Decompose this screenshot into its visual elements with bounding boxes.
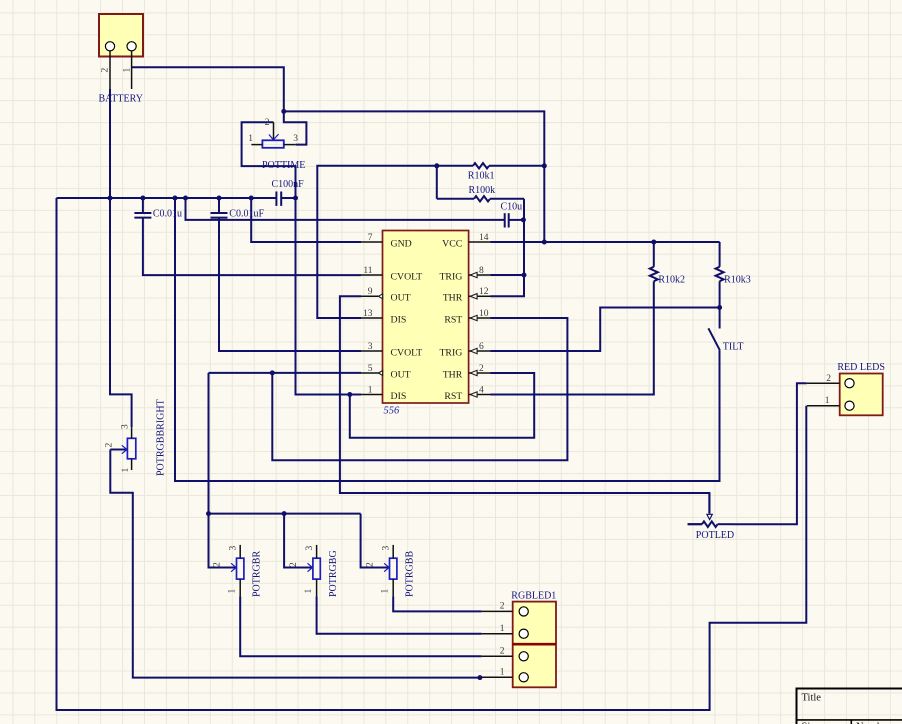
wire R10k1 row to DIS pin13 xyxy=(317,166,437,318)
svg-text:2: 2 xyxy=(500,602,505,612)
svg-text:3: 3 xyxy=(229,546,239,551)
wire POTTIME wiper loop xyxy=(242,122,296,198)
svg-text:OUT: OUT xyxy=(391,293,411,304)
capacitor C100nF xyxy=(276,192,281,206)
node bus junction rail175 xyxy=(173,196,178,201)
svg-text:C10u: C10u xyxy=(501,202,523,213)
pin name OUT left row 6 xyxy=(391,369,411,380)
pin number 2 xyxy=(479,364,484,374)
pin name TRIG right row 5 xyxy=(439,347,462,358)
pin 5 OUT of 556 xyxy=(361,371,383,376)
label POTRGBG xyxy=(328,550,339,597)
wire OUT pin9 to POTLED top xyxy=(340,296,710,513)
wire OUT2 net down to pots rail xyxy=(208,373,210,514)
capacitor C10u xyxy=(505,213,509,227)
svg-text:TRIG: TRIG xyxy=(439,271,462,282)
pin number 1 of RED LEDS xyxy=(825,396,830,406)
label POTRGBR xyxy=(252,551,263,597)
label POTRGBB xyxy=(405,551,416,597)
pin 1 DIS of 556 xyxy=(361,394,383,396)
wire rail to POTRGBB wiper xyxy=(361,514,390,568)
svg-text:11: 11 xyxy=(363,266,372,276)
wire POTTIME node to pin3 loop xyxy=(284,111,307,144)
node DIS2 junction xyxy=(347,392,352,397)
pin number 4 xyxy=(479,385,484,395)
wire C10u right to R100k/TRIG node xyxy=(509,219,524,221)
svg-text:8: 8 xyxy=(479,266,484,276)
pin 10 RST of 556 xyxy=(469,315,491,320)
wire POTRGBR pin1 to RGBLED1 xyxy=(240,596,481,656)
label C0.01u xyxy=(153,208,182,219)
svg-text:R100k: R100k xyxy=(469,185,496,196)
svg-text:1: 1 xyxy=(500,668,505,678)
pin name DIS left row 7 xyxy=(391,391,407,402)
pin 14 VCC of 556 xyxy=(469,241,491,243)
pin name OUT left row 3 xyxy=(391,293,411,304)
svg-text:1: 1 xyxy=(123,68,133,73)
capacitor C0.01u xyxy=(134,213,151,218)
node A POTTIME top junction xyxy=(281,109,286,114)
pin number 2 of POTTIME xyxy=(265,118,270,128)
pin stub POTTIME pin1 xyxy=(251,144,262,146)
capacitor C0.01uF xyxy=(211,213,228,218)
pin number 1 of RGBLED1 at y633 xyxy=(500,624,505,634)
node VCC junction mid xyxy=(542,240,547,245)
svg-text:RST: RST xyxy=(444,314,462,325)
svg-text:DIS: DIS xyxy=(391,391,407,402)
pin number 1 of POTRGBG xyxy=(304,589,314,594)
pin 8 TRIG of 556 xyxy=(469,272,491,277)
potentiometer POTRGBBRIGHT xyxy=(122,427,136,470)
pin number 1 of BATTERY xyxy=(123,68,133,73)
wire GND branch xyxy=(251,198,361,242)
pin number 1 of POTTIME xyxy=(248,134,253,144)
svg-text:POTLED: POTLED xyxy=(696,530,734,541)
pin name TRIG right row 2 xyxy=(439,271,462,282)
pin number 13 xyxy=(363,309,373,319)
svg-text:3: 3 xyxy=(293,134,298,144)
wire pots rail xyxy=(209,513,361,515)
pin 13 DIS of 556 xyxy=(361,317,383,319)
wire rail to POTRGBG wiper xyxy=(284,514,313,568)
wire RST pin4 to R10k2 bottom xyxy=(491,281,654,394)
wire OUT pin5 row xyxy=(209,372,362,374)
svg-text:BATTERY: BATTERY xyxy=(99,94,143,105)
wire POTLED left lead xyxy=(688,523,702,525)
svg-text:2: 2 xyxy=(479,364,484,374)
svg-text:1: 1 xyxy=(304,589,314,594)
label Size xyxy=(802,721,820,724)
svg-text:3: 3 xyxy=(305,546,315,551)
pin name CVOLT left row 2 xyxy=(391,271,423,282)
wire bus branch to C10u left xyxy=(186,198,505,220)
svg-text:1: 1 xyxy=(368,385,373,395)
pin number 5 xyxy=(368,364,373,374)
svg-text:6: 6 xyxy=(479,342,484,352)
wire TILT top terminal xyxy=(719,308,721,329)
pin number 1 of POTRGBB xyxy=(381,589,391,594)
svg-text:2: 2 xyxy=(366,562,376,567)
svg-text:3: 3 xyxy=(382,546,392,551)
pin 3 CVOLT of 556 xyxy=(361,350,383,352)
resistor R10k1 xyxy=(437,163,545,168)
svg-text:TRIG: TRIG xyxy=(439,347,462,358)
wire battery pin1 to POTTIME node xyxy=(132,67,284,111)
pin name THR right row 6 xyxy=(443,369,463,380)
pin number 12 xyxy=(479,287,489,297)
wire C0.01uF top lead xyxy=(218,198,220,213)
label R10k2 xyxy=(658,275,685,286)
svg-text:TILT: TILT xyxy=(723,342,744,353)
label RGBLED1 xyxy=(511,591,556,602)
label R10k3 xyxy=(724,275,751,286)
wire TRIG pin6 to R10k3 node xyxy=(491,308,720,352)
node bus junction C2 xyxy=(217,196,222,201)
resistor R10k3 xyxy=(716,267,724,281)
label POTTIME xyxy=(262,160,305,171)
potentiometer POTTIME body xyxy=(262,122,283,148)
svg-text:R10k3: R10k3 xyxy=(724,275,751,286)
svg-text:1: 1 xyxy=(248,134,253,144)
svg-text:RGBLED1: RGBLED1 xyxy=(511,591,556,602)
wire R10k1 left to R100k xyxy=(436,166,438,199)
battery connector BATTERY xyxy=(99,14,143,89)
wire RED LEDS pin2 to POTLED xyxy=(732,383,807,524)
node bus junction C1 xyxy=(140,196,145,201)
pin name RST right row 4 xyxy=(444,314,462,325)
svg-text:THR: THR xyxy=(443,293,463,304)
svg-text:2: 2 xyxy=(105,443,115,448)
pin number 2 of RGBLED1 at y656 xyxy=(500,647,505,657)
potentiometer POTRGBB xyxy=(384,545,397,597)
pin number 3 of POTRGBB xyxy=(382,546,392,551)
svg-text:1: 1 xyxy=(381,589,391,594)
node RGBLED1 pin1 junction xyxy=(477,675,482,680)
op-amp timer U1 556 body xyxy=(383,231,469,404)
svg-text:POTRGBBRIGHT: POTRGBBRIGHT xyxy=(156,399,167,476)
wire R100k right corner down xyxy=(491,199,525,296)
svg-text:C100nF: C100nF xyxy=(272,179,305,190)
wire R10k3 top lead xyxy=(719,242,721,267)
node OUT2 junction xyxy=(270,370,275,375)
wire THR pin2 to DIS2 node xyxy=(350,373,534,438)
svg-text:Title: Title xyxy=(802,692,822,703)
label C100nF xyxy=(272,179,305,190)
label RED LEDS xyxy=(837,362,885,373)
svg-text:R10k2: R10k2 xyxy=(658,275,685,286)
pin number 2 of BATTERY xyxy=(101,68,111,73)
pin name DIS left row 4 xyxy=(391,314,407,325)
wire battery pin2 down xyxy=(109,89,111,198)
svg-text:CVOLT: CVOLT xyxy=(391,347,423,358)
node bus junction x295 xyxy=(293,196,298,201)
pin number 6 xyxy=(479,342,484,352)
svg-text:7: 7 xyxy=(368,233,373,243)
svg-text:9: 9 xyxy=(368,287,373,297)
pin number 1 of RGBLED1 at y677 xyxy=(500,668,505,678)
potentiometer POTLED xyxy=(688,493,732,527)
connector RED LEDS xyxy=(807,374,883,416)
pin name RST right row 7 xyxy=(444,391,462,402)
pin name CVOLT left row 5 xyxy=(391,347,423,358)
pin number 2 of RGBLED1 at y611 xyxy=(500,602,505,612)
svg-text:C0.01uF: C0.01uF xyxy=(229,208,264,219)
svg-text:2: 2 xyxy=(265,118,270,128)
pin name GND left row 1 xyxy=(391,238,412,249)
node pots rail junction G xyxy=(282,511,287,516)
svg-text:1: 1 xyxy=(228,589,238,594)
label R10k1 xyxy=(468,170,495,181)
svg-text:DIS: DIS xyxy=(391,314,407,325)
pin number 2 of POTRGBBRIGHT xyxy=(105,443,115,448)
potentiometer POTRGBR xyxy=(231,545,244,597)
resistor R10k2 xyxy=(650,242,658,281)
node R10k1 right junction xyxy=(542,163,547,168)
pin number 2 of RED LEDS xyxy=(826,374,831,384)
pin number 2 of POTRGBG xyxy=(289,562,299,567)
pin name VCC right row 1 xyxy=(442,238,462,249)
pin number 3 of POTRGBR xyxy=(229,546,239,551)
wire TRIG pin8 stub wire xyxy=(491,274,525,276)
label POTLED xyxy=(696,530,734,541)
node bus junction battery xyxy=(108,196,113,201)
wire left rail and bottom rail xyxy=(57,198,807,710)
connector RGBLED1 xyxy=(482,602,556,688)
label 556 xyxy=(384,406,401,417)
pin number 11 xyxy=(363,266,372,276)
pin 7 GND of 556 xyxy=(361,241,383,243)
label R100k xyxy=(469,185,496,196)
pin number 7 xyxy=(368,233,373,243)
label BATTERY xyxy=(99,94,143,105)
svg-text:4: 4 xyxy=(479,385,484,395)
svg-text:2: 2 xyxy=(101,68,111,73)
pin 4 RST of 556 xyxy=(469,392,491,397)
svg-text:POTRGBB: POTRGBB xyxy=(405,551,416,597)
pin stub POTTIME pin3 xyxy=(284,144,296,146)
wire rail to TILT bottom xyxy=(175,198,720,481)
svg-text:5: 5 xyxy=(368,364,373,374)
svg-text:2: 2 xyxy=(826,374,831,384)
wire RST pin10 to OUT pin5 link xyxy=(272,318,567,460)
svg-text:THR: THR xyxy=(443,369,463,380)
wire C0.01u top lead xyxy=(142,198,144,213)
svg-text:RST: RST xyxy=(444,391,462,402)
svg-text:POTRGBR: POTRGBR xyxy=(252,551,263,597)
node C10u junction xyxy=(521,217,526,222)
svg-text:POTTIME: POTTIME xyxy=(262,160,305,171)
svg-text:14: 14 xyxy=(479,233,489,243)
wire POTRGBBRIGHT wiper net xyxy=(110,450,481,678)
wire POTRGBBRIGHT wiper xyxy=(110,449,127,451)
svg-text:C0.01u: C0.01u xyxy=(153,208,182,219)
label POTRGBBRIGHT xyxy=(156,399,167,476)
pin 6 TRIG of 556 xyxy=(469,348,491,353)
node R10k2 top junction xyxy=(651,240,656,245)
node TRIG1 junction xyxy=(522,273,527,278)
pin number 3 xyxy=(368,342,373,352)
title block border xyxy=(797,688,902,724)
svg-text:2: 2 xyxy=(213,562,223,567)
svg-text:12: 12 xyxy=(479,287,489,297)
svg-text:1: 1 xyxy=(121,468,131,473)
svg-text:1: 1 xyxy=(500,624,505,634)
pin number 1 xyxy=(368,385,373,395)
label Number xyxy=(856,721,891,724)
pin number 1 of POTRGBR xyxy=(228,589,238,594)
svg-text:R10k1: R10k1 xyxy=(468,170,495,181)
label TILT xyxy=(723,342,744,353)
svg-text:556: 556 xyxy=(384,406,401,417)
wire VCC pin14 rail xyxy=(491,241,720,243)
label C10u xyxy=(501,202,523,213)
pin number 10 xyxy=(479,309,489,319)
svg-text:GND: GND xyxy=(391,238,412,249)
pin 11 CVOLT of 556 xyxy=(361,274,383,276)
wire C0.01u bottom to CVOLT pin11 xyxy=(143,218,361,276)
wire battery net to POTRGBBRIGHT pin3 xyxy=(110,198,132,427)
svg-text:RED LEDS: RED LEDS xyxy=(837,362,885,373)
svg-text:VCC: VCC xyxy=(442,238,462,249)
wire POTRGBB pin1 to RGBLED1 xyxy=(393,596,481,611)
node bus junction GND-branch xyxy=(249,196,254,201)
svg-text:CVOLT: CVOLT xyxy=(391,271,423,282)
svg-text:1: 1 xyxy=(825,396,830,406)
wire power bus xyxy=(57,197,296,199)
pin number 14 xyxy=(479,233,489,243)
wire R10k3 bottom lead xyxy=(719,281,721,307)
pin name THR right row 3 xyxy=(443,293,463,304)
pin number 1 of POTRGBBRIGHT xyxy=(121,468,131,473)
wire POTRGBG pin1 to RGBLED1 xyxy=(317,596,482,633)
svg-text:3: 3 xyxy=(121,424,131,429)
node bus junction C10u-branch xyxy=(183,196,188,201)
node pots rail junction R xyxy=(206,511,211,516)
svg-text:13: 13 xyxy=(363,309,373,319)
svg-text:3: 3 xyxy=(368,342,373,352)
switch TILT xyxy=(708,328,719,481)
node R10k3 TILT junction xyxy=(717,305,722,310)
resistor R100k xyxy=(437,196,524,201)
label Title xyxy=(802,692,822,703)
pin 12 THR of 556 xyxy=(469,294,491,299)
svg-text:10: 10 xyxy=(479,309,489,319)
pin number 3 of POTRGBBRIGHT xyxy=(121,424,131,429)
pin number 9 xyxy=(368,287,373,297)
label C0.01uF xyxy=(229,208,264,219)
wire POTTIME node to VCC rail xyxy=(284,111,545,242)
pin number 2 of POTRGBR xyxy=(213,562,223,567)
node R10k1 left junction xyxy=(434,163,439,168)
pin number 8 xyxy=(479,266,484,276)
svg-text:POTRGBG: POTRGBG xyxy=(328,550,339,597)
svg-text:2: 2 xyxy=(289,562,299,567)
wire rail to POTRGBR wiper xyxy=(209,514,237,568)
pin number 3 of POTTIME xyxy=(293,134,298,144)
svg-text:2: 2 xyxy=(500,647,505,657)
svg-text:OUT: OUT xyxy=(391,369,411,380)
pin number 2 of POTRGBB xyxy=(366,562,376,567)
pin number 3 of POTRGBG xyxy=(305,546,315,551)
wire POTTIME net down to DIS2 xyxy=(296,198,362,395)
wire C0.01uF bottom to CVOLT pin3 xyxy=(219,218,361,351)
pin 2 THR of 556 xyxy=(469,370,491,375)
potentiometer POTRGBG xyxy=(308,545,321,597)
pin 9 OUT of 556 xyxy=(361,294,383,299)
